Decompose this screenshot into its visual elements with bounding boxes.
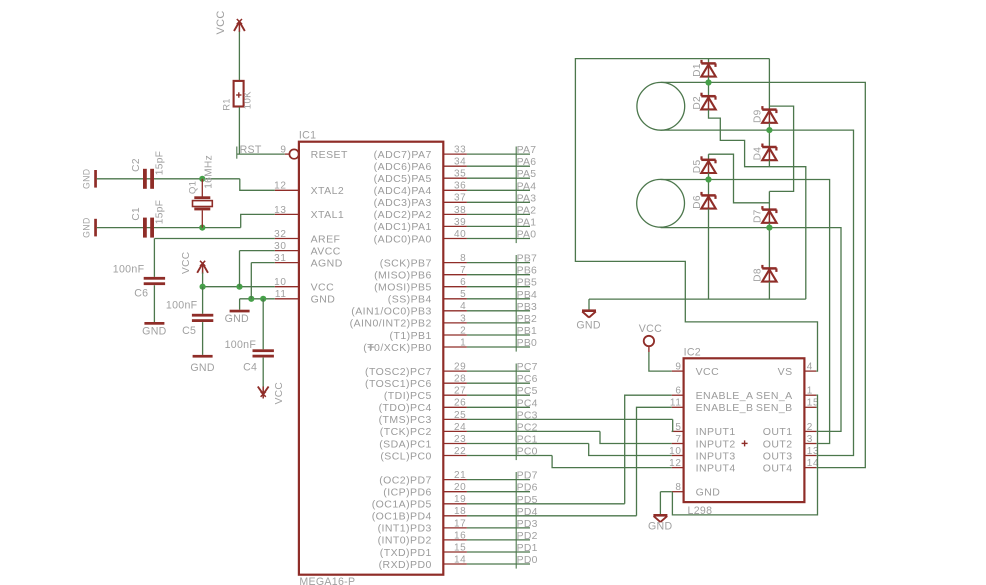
svg-text:18: 18 [454,506,466,517]
svg-text:29: 29 [454,362,466,373]
svg-text:13: 13 [274,205,286,216]
svg-text:VCC: VCC [181,252,192,274]
svg-text:26: 26 [454,398,466,409]
svg-text:GND: GND [225,313,249,325]
svg-text:GND: GND [311,294,336,306]
svg-text:10: 10 [274,277,286,288]
svg-text:4: 4 [460,301,466,312]
svg-text:PC3: PC3 [517,410,538,421]
svg-text:VS: VS [778,366,793,378]
svg-text:8: 8 [460,253,466,264]
svg-text:GND: GND [82,169,92,189]
svg-text:INPUT1: INPUT1 [696,426,736,438]
svg-text:(SCL)PC0: (SCL)PC0 [380,450,431,462]
svg-text:(ADC3)PA3: (ADC3)PA3 [374,197,432,209]
svg-text:5: 5 [460,289,466,300]
svg-text:PA1: PA1 [517,217,537,228]
svg-text:(TMS)PC3: (TMS)PC3 [379,414,432,426]
svg-text:RESET: RESET [311,149,348,161]
svg-text:38: 38 [454,205,466,216]
svg-text:D6: D6 [692,195,703,209]
svg-text:1: 1 [807,386,813,397]
svg-text:(RXD)PD0: (RXD)PD0 [379,559,432,571]
svg-text:RST: RST [240,144,262,156]
svg-text:C4: C4 [243,361,257,373]
svg-text:R1: R1 [221,98,232,111]
svg-text:VCC: VCC [639,323,662,335]
svg-text:PB0: PB0 [517,338,538,349]
svg-text:(MOSI)PB5: (MOSI)PB5 [374,282,432,294]
svg-text:PB6: PB6 [517,266,538,277]
svg-text:(INT1)PD3: (INT1)PD3 [378,523,432,535]
svg-text:30: 30 [274,241,286,252]
svg-text:39: 39 [454,217,466,228]
svg-text:15pF: 15pF [155,151,166,175]
svg-text:PB7: PB7 [517,254,538,265]
svg-text:PD4: PD4 [517,507,538,518]
svg-text:INPUT4: INPUT4 [696,462,736,474]
svg-text:AGND: AGND [311,257,343,269]
svg-text:PC1: PC1 [517,435,538,446]
svg-text:ENABLE_B: ENABLE_B [696,402,754,414]
svg-text:SEN_B: SEN_B [756,402,793,414]
svg-text:D4: D4 [753,147,764,161]
svg-text:(T1)PB1: (T1)PB1 [390,330,432,342]
svg-text:32: 32 [274,229,286,240]
svg-text:VCC: VCC [311,282,335,294]
svg-text:PD3: PD3 [517,519,538,530]
svg-text:16MHz: 16MHz [203,155,214,189]
svg-text:14: 14 [454,554,466,565]
svg-text:PA2: PA2 [517,205,537,216]
svg-text:5: 5 [675,422,681,433]
svg-text:C6: C6 [134,287,148,299]
svg-text:VCC: VCC [274,382,285,404]
svg-text:OUT3: OUT3 [763,450,793,462]
svg-text:D1: D1 [692,63,703,77]
svg-text:AVCC: AVCC [311,245,341,257]
svg-text:(AIN0/INT2)PB2: (AIN0/INT2)PB2 [350,318,432,330]
svg-text:PD1: PD1 [517,543,538,554]
svg-text:PB5: PB5 [517,278,538,289]
svg-text:11: 11 [275,289,287,300]
svg-text:40: 40 [454,229,466,240]
svg-text:Q1: Q1 [187,181,198,194]
svg-text:PB2: PB2 [517,314,538,325]
svg-text:37: 37 [454,193,466,204]
svg-text:PC6: PC6 [517,374,538,385]
svg-text:(ADC0)PA0: (ADC0)PA0 [374,233,432,245]
svg-text:100nF: 100nF [166,299,198,311]
svg-text:PD2: PD2 [517,531,538,542]
svg-text:GND: GND [576,319,600,331]
svg-text:4: 4 [807,362,813,373]
svg-text:D9: D9 [753,109,764,123]
svg-text:VCC: VCC [215,10,227,34]
svg-text:2: 2 [807,422,813,433]
svg-text:C5: C5 [182,325,196,337]
svg-text:(OC1A)PD5: (OC1A)PD5 [372,499,432,511]
svg-text:PA6: PA6 [517,157,537,168]
svg-text:GND: GND [142,326,166,338]
svg-text:23: 23 [454,434,466,445]
svg-text:(TOSC2)PC7: (TOSC2)PC7 [365,366,432,378]
svg-text:15: 15 [454,542,466,553]
svg-text:INPUT2: INPUT2 [696,438,736,450]
svg-text:PD6: PD6 [517,483,538,494]
svg-text:3: 3 [460,313,466,324]
svg-text:24: 24 [454,422,466,433]
svg-text:(ADC7)PA7: (ADC7)PA7 [374,149,432,161]
svg-text:(OC2)PD7: (OC2)PD7 [379,474,432,486]
svg-text:AREF: AREF [311,233,341,245]
svg-text:(ADC2)PA2: (ADC2)PA2 [374,209,432,221]
svg-text:7: 7 [460,265,466,276]
svg-text:GND: GND [696,487,721,499]
svg-text:GND: GND [648,520,672,532]
svg-text:28: 28 [454,374,466,385]
svg-text:PC7: PC7 [517,362,538,373]
svg-text:PA7: PA7 [517,145,537,156]
svg-text:D8: D8 [753,268,764,282]
svg-text:6: 6 [460,277,466,288]
svg-text:9: 9 [675,362,681,373]
svg-text:(SS)PB4: (SS)PB4 [388,294,432,306]
svg-text:PA5: PA5 [517,169,537,180]
svg-text:PB1: PB1 [517,326,538,337]
svg-text:D5: D5 [692,160,703,174]
svg-text:PA3: PA3 [517,193,537,204]
svg-text:PA0: PA0 [517,230,537,241]
svg-text:(ADC4)PA4: (ADC4)PA4 [374,185,432,197]
svg-text:MEGA16-P: MEGA16-P [299,576,355,585]
svg-text:D7: D7 [753,209,764,223]
svg-text:20: 20 [454,482,466,493]
svg-text:PD5: PD5 [517,495,538,506]
svg-text:(SDA)PC1: (SDA)PC1 [379,438,432,450]
svg-text:(OC1B)PD4: (OC1B)PD4 [372,511,432,523]
svg-text:OUT2: OUT2 [763,438,793,450]
svg-text:IC1: IC1 [299,130,316,142]
svg-text:ENABLE_A: ENABLE_A [696,390,754,402]
svg-text:27: 27 [454,386,466,397]
svg-text:3: 3 [807,434,813,445]
svg-text:21: 21 [454,470,466,481]
svg-text:VCC: VCC [696,366,720,378]
svg-text:(TDI)PC5: (TDI)PC5 [384,390,432,402]
svg-text:PD7: PD7 [517,471,538,482]
svg-text:33: 33 [454,145,466,156]
svg-text:7: 7 [675,434,681,445]
svg-text:1: 1 [460,337,466,348]
svg-text:(ADC5)PA5: (ADC5)PA5 [374,173,432,185]
svg-text:19: 19 [454,494,466,505]
svg-text:(SCK)PB7: (SCK)PB7 [380,257,432,269]
svg-text:INPUT3: INPUT3 [696,450,736,462]
svg-text:PD0: PD0 [517,555,538,566]
svg-text:(TDO)PC4: (TDO)PC4 [379,402,432,414]
svg-text:PA4: PA4 [517,181,537,192]
svg-text:12: 12 [274,181,286,192]
svg-text:2: 2 [460,325,466,336]
svg-text:PC4: PC4 [517,398,538,409]
svg-text:15pF: 15pF [155,200,166,224]
svg-text:(AIN1/OC0)PB3: (AIN1/OC0)PB3 [351,306,432,318]
svg-text:GND: GND [82,217,92,237]
svg-text:16: 16 [454,530,466,541]
svg-text:(MISO)PB6: (MISO)PB6 [374,270,432,282]
svg-text:100nF: 100nF [113,263,145,275]
svg-text:PC0: PC0 [517,447,538,458]
svg-text:6: 6 [675,386,681,397]
svg-text:17: 17 [454,518,466,529]
svg-text:XTAL2: XTAL2 [311,185,345,197]
svg-text:(TCK)PC2: (TCK)PC2 [380,426,432,438]
svg-text:D2: D2 [692,96,703,110]
svg-text:25: 25 [454,410,466,421]
svg-text:C2: C2 [131,158,142,172]
svg-text:(INT0)PD2: (INT0)PD2 [378,535,432,547]
svg-text:(ICP)PD6: (ICP)PD6 [383,487,432,499]
svg-text:PB4: PB4 [517,290,538,301]
svg-text:OUT4: OUT4 [763,462,793,474]
svg-text:36: 36 [454,181,466,192]
svg-text:IC2: IC2 [684,346,701,358]
svg-text:(ADC6)PA6: (ADC6)PA6 [374,161,432,173]
svg-text:C1: C1 [131,207,142,221]
svg-text:22: 22 [454,446,466,457]
svg-text:(TOSC1)PC6: (TOSC1)PC6 [365,378,432,390]
svg-text:XTAL1: XTAL1 [311,209,345,221]
svg-text:SEN_A: SEN_A [756,390,793,402]
svg-text:(T0/XCK)PB0: (T0/XCK)PB0 [363,342,432,354]
svg-text:GND: GND [190,362,214,374]
svg-text:OUT1: OUT1 [763,426,793,438]
svg-text:34: 34 [454,157,466,168]
svg-text:PC5: PC5 [517,386,538,397]
svg-text:35: 35 [454,169,466,180]
svg-text:PC2: PC2 [517,422,538,433]
svg-text:PB3: PB3 [517,302,538,313]
svg-text:10K: 10K [242,91,253,109]
svg-text:(TXD)PD1: (TXD)PD1 [380,547,432,559]
svg-text:100nF: 100nF [225,339,257,351]
svg-text:31: 31 [274,253,286,264]
svg-text:8: 8 [675,482,681,493]
svg-text:(ADC1)PA1: (ADC1)PA1 [374,221,432,233]
